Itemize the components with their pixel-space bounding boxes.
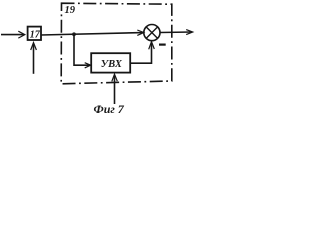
minus sign at multiplier input: [159, 43, 166, 45]
wire 17 to multiplier: [41, 33, 143, 35]
wire UVH output to multiplier bottom: [130, 43, 151, 64]
input arrow (bottom, to UVH): [114, 76, 116, 104]
input arrow (left): [1, 34, 24, 36]
multiplier circle: [144, 24, 160, 40]
svg-text:19: 19: [65, 5, 76, 16]
input arrow (bottom of 17): [33, 44, 35, 74]
svg-text:Фиг 7: Фиг 7: [94, 102, 125, 116]
block UVH (sample-and-hold): [91, 53, 130, 72]
output arrow (right): [160, 31, 192, 34]
svg-text:17: 17: [30, 29, 41, 40]
junction node: [72, 32, 76, 36]
svg-text:УВХ: УВХ: [101, 59, 123, 70]
block 17: [28, 27, 41, 40]
dashed enclosure box 19: [61, 3, 172, 84]
wire junction to UVH input: [74, 34, 90, 65]
